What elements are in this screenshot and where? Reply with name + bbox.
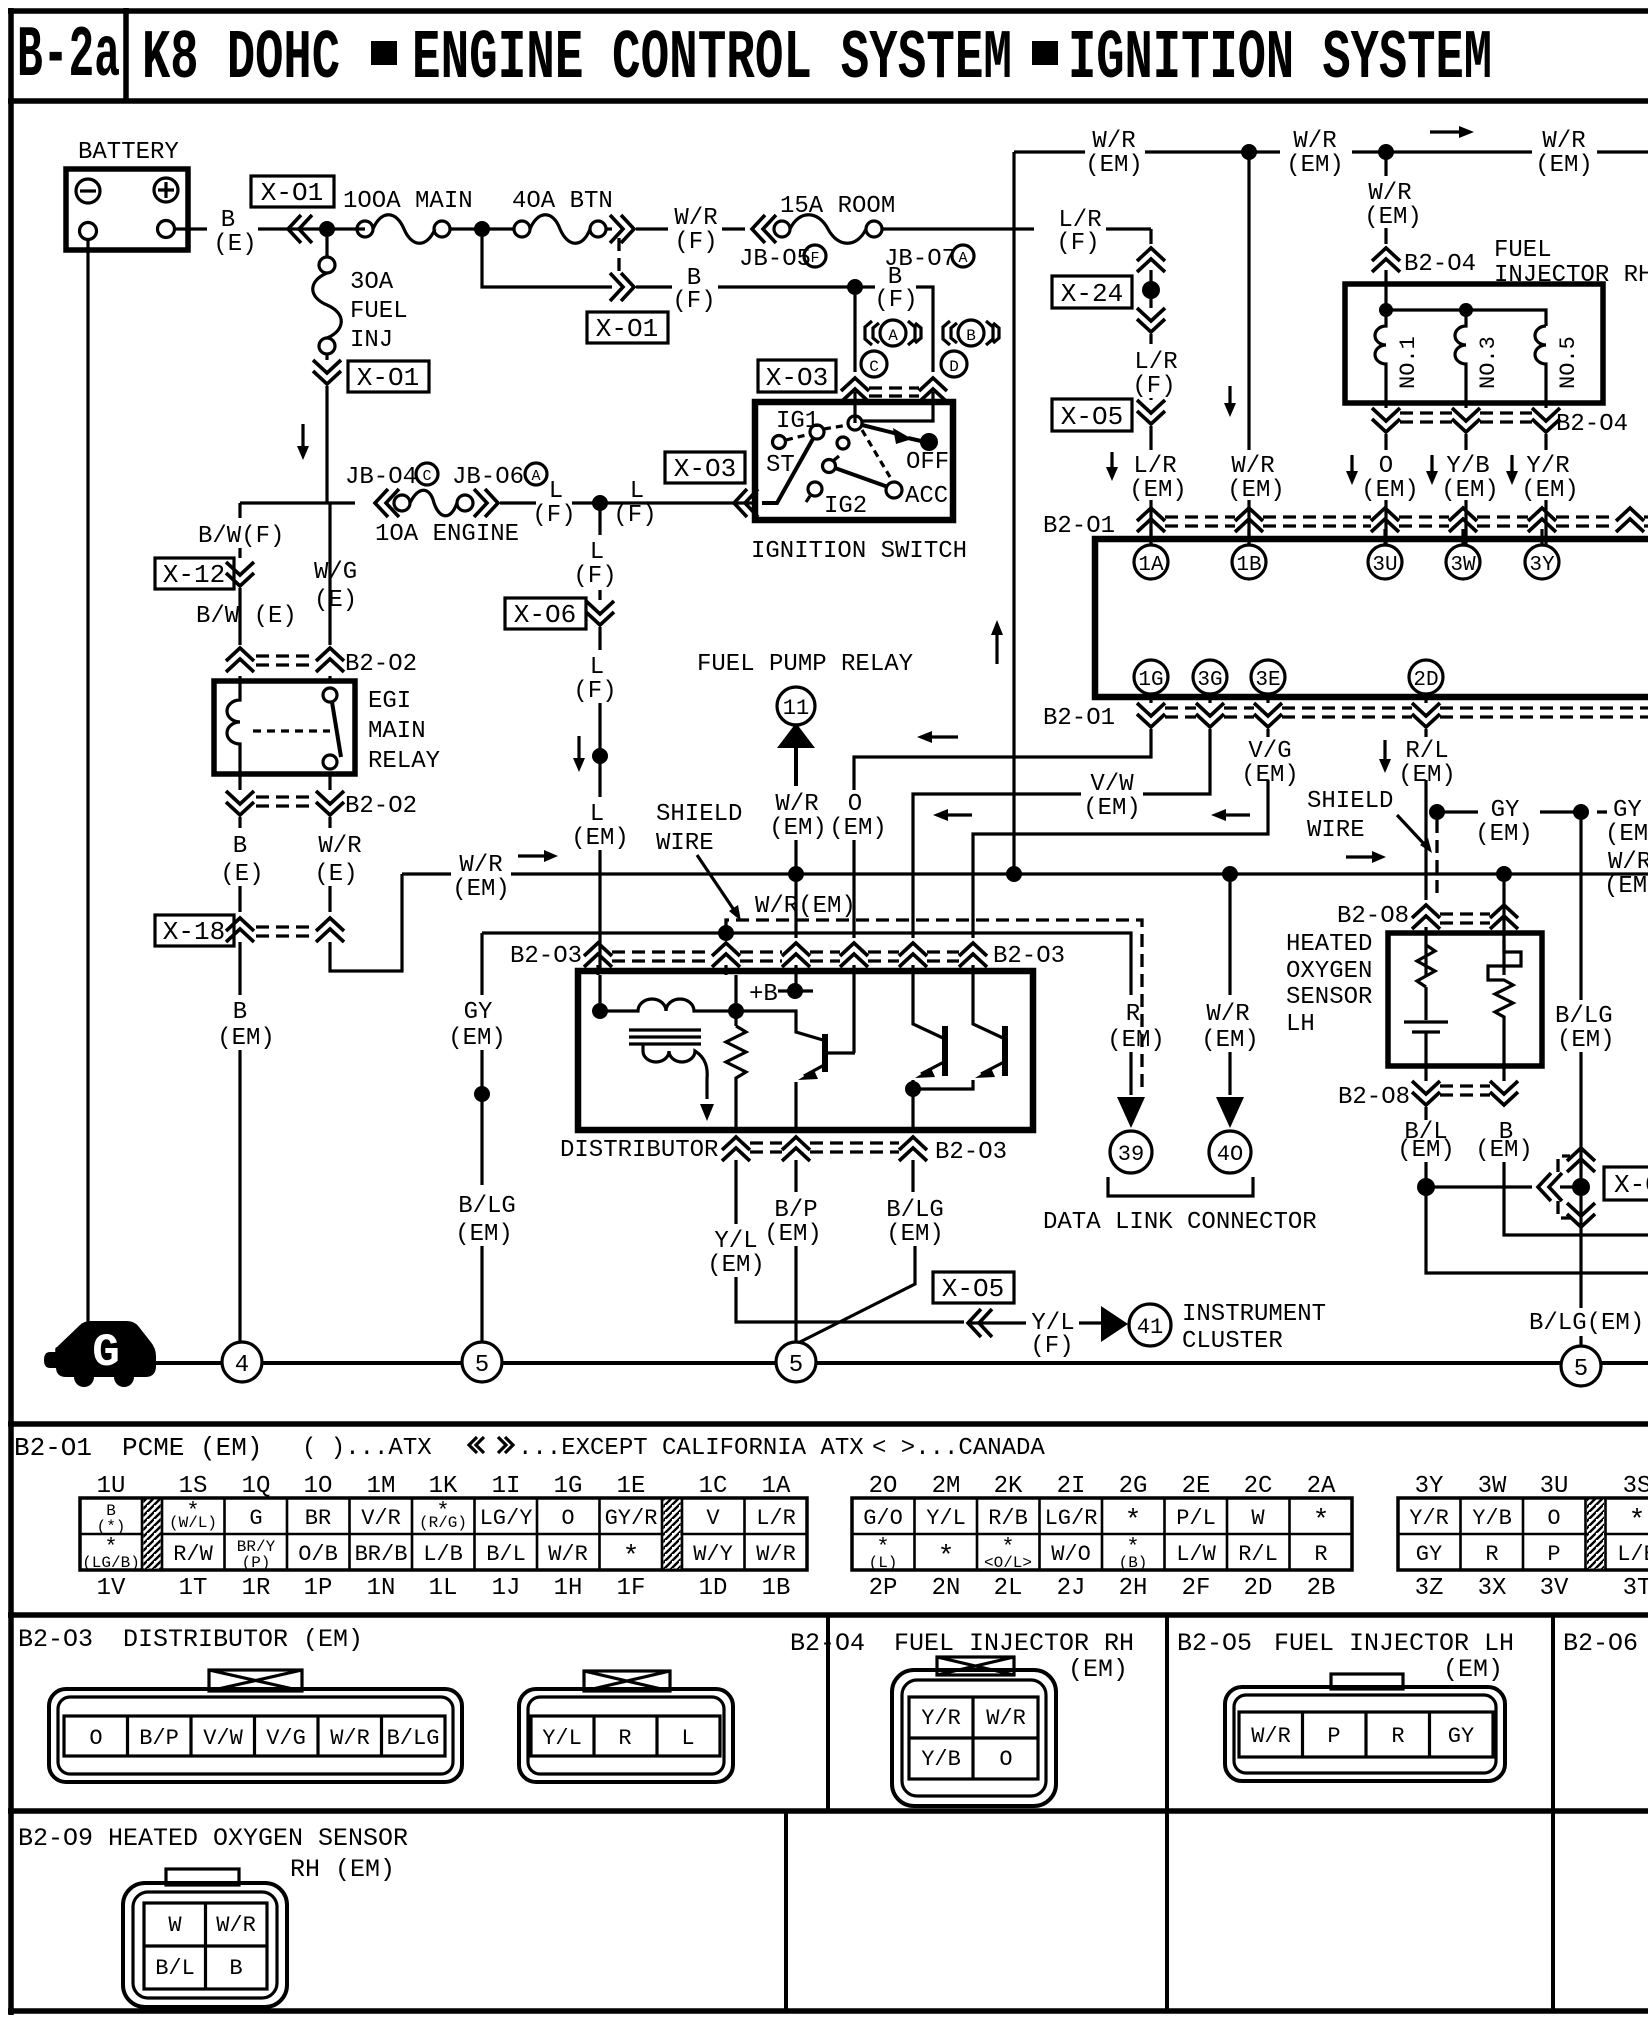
- svg-text:FUEL INJECTOR LH: FUEL INJECTOR LH: [1274, 1629, 1514, 1658]
- wire W/R(F): [636, 227, 745, 230]
- svg-text:ACC: ACC: [905, 483, 948, 510]
- wire B/L junction to X connector: [1426, 1185, 1581, 1188]
- svg-text:Y/B: Y/B: [1446, 453, 1489, 480]
- connector chevron up above dot: [1567, 1148, 1595, 1172]
- svg-text:1S: 1S: [179, 1473, 208, 1500]
- distributor connector 3pin body: [519, 1689, 733, 1782]
- except-california A close bracket: [908, 321, 921, 345]
- sensor cell battery symbol: [1404, 987, 1448, 1066]
- svg-text:3V: 3V: [1540, 1575, 1569, 1602]
- ACC contact: [886, 482, 902, 498]
- wire from B/W column: [240, 501, 355, 504]
- contact IG1: [810, 425, 824, 439]
- arrow triangle R: [1117, 1097, 1145, 1128]
- arrow right top: [1430, 130, 1468, 133]
- injector LH connector body: [1225, 1687, 1505, 1781]
- pin 2D: [1409, 660, 1443, 694]
- wire B(E) to fuses: [258, 227, 365, 230]
- svg-text:B/LG: B/LG: [1555, 1003, 1613, 1030]
- arrow down: [1110, 452, 1113, 476]
- svg-text:MAIN: MAIN: [368, 718, 426, 745]
- pin 1G: [1134, 660, 1168, 694]
- arrow down: [1350, 455, 1353, 480]
- svg-text:B2-O6: B2-O6: [1563, 1629, 1638, 1658]
- svg-text:1A: 1A: [762, 1473, 791, 1500]
- svg-text:L: L: [681, 1726, 694, 1751]
- svg-text:(EM): (EM): [1107, 1027, 1165, 1054]
- wire V/G to Q3: [973, 975, 1003, 1038]
- svg-text:R/L: R/L: [1405, 738, 1448, 765]
- battery plus terminal: [154, 178, 178, 202]
- svg-text:W/R(EM): W/R(EM): [755, 893, 856, 920]
- battery lower-right post: [158, 221, 175, 238]
- svg-text:*: *: [1125, 1506, 1142, 1537]
- svg-text:X-O3: X-O3: [766, 363, 828, 393]
- connector chevron down: [1137, 308, 1165, 332]
- svg-text:<O/L>: <O/L>: [984, 1554, 1032, 1572]
- group2 row1 cells: [863, 1506, 1329, 1537]
- distributor connector 6pin tab: [209, 1670, 302, 1691]
- svg-text:GY: GY: [464, 999, 493, 1026]
- svg-text:X-O: X-O: [1614, 1170, 1648, 1200]
- wire to PCME: [1149, 500, 1152, 545]
- svg-text:DISTRIBUTOR: DISTRIBUTOR: [560, 1137, 718, 1164]
- svg-text:X-O3: X-O3: [674, 454, 736, 484]
- svg-text:GY: GY: [1416, 1542, 1442, 1567]
- wire to ignition switch: [660, 501, 755, 504]
- injector LH pin row: [1239, 1712, 1493, 1757]
- riser from bus to top: [1012, 152, 1015, 874]
- data link bracket: [1108, 1177, 1253, 1196]
- svg-text:L: L: [590, 801, 604, 828]
- svg-text:B2-O2: B2-O2: [345, 651, 417, 678]
- connector X-06 chevron: [586, 601, 614, 625]
- wire: [598, 627, 601, 650]
- svg-text:P: P: [1547, 1542, 1560, 1567]
- svg-text:(F): (F): [573, 678, 616, 705]
- svg-text:DISTRIBUTOR: DISTRIBUTOR: [123, 1625, 288, 1654]
- svg-text:(EM): (EM): [1443, 1655, 1503, 1684]
- wire to junction: [500, 501, 536, 504]
- wires below box: [1386, 403, 1546, 408]
- divider B2-05/B2-06: [1551, 1614, 1555, 2011]
- svg-text:*: *: [938, 1542, 955, 1573]
- svg-text:(EM): (EM): [1364, 204, 1422, 231]
- circled D: [941, 351, 967, 377]
- pin 3E: [1251, 660, 1285, 694]
- triangle right: [1101, 1306, 1128, 1342]
- wire V/W to Q2: [913, 975, 943, 1038]
- svg-text:W/R: W/R: [775, 791, 818, 818]
- pin 3U: [1368, 545, 1402, 579]
- distributor connector 3pin pin row: [531, 1716, 720, 1756]
- svg-text:G: G: [92, 1327, 120, 1379]
- junction dot injector column: [1378, 144, 1394, 160]
- wire B/W(F) down: [325, 386, 328, 503]
- wire B/L down to junction: [1424, 1107, 1427, 1187]
- svg-text:JB-O4: JB-O4: [345, 464, 417, 491]
- svg-text:X-O5: X-O5: [1061, 402, 1123, 432]
- svg-text:O/B: O/B: [298, 1542, 338, 1567]
- dashed bracket marks: [1558, 1156, 1570, 1172]
- wire B(F) down and right: [482, 237, 612, 287]
- wire W/R(E) to bus riser: [330, 874, 402, 971]
- wire B down and right: [1504, 1162, 1648, 1235]
- wire 1A..3Y pins up to chevrons: [1151, 529, 1542, 545]
- EGI main relay box: [214, 681, 355, 774]
- svg-text:3U: 3U: [1540, 1473, 1569, 1500]
- wire: [328, 886, 331, 912]
- page left border: [8, 8, 14, 2015]
- svg-text:(EM): (EM): [1535, 152, 1593, 179]
- svg-text:FUEL: FUEL: [1494, 237, 1552, 264]
- svg-text:L/W: L/W: [1176, 1542, 1216, 1567]
- base feed from coil to Q1: [736, 1011, 823, 1040]
- connector X-18 chevrons: [226, 918, 254, 942]
- X-05 box: [933, 1272, 1014, 1303]
- svg-text:W/R: W/R: [986, 1706, 1026, 1731]
- svg-text:1B: 1B: [762, 1575, 791, 1602]
- B2-03 bottom dashed pair: [750, 1141, 899, 1144]
- wire 1G pin to chevron: [1151, 694, 1426, 703]
- svg-text:+B: +B: [749, 981, 778, 1008]
- svg-text:L: L: [590, 539, 604, 566]
- svg-text:BR: BR: [305, 1506, 331, 1531]
- svg-text:1B: 1B: [1236, 554, 1261, 577]
- B2-02 dashed pair: [256, 654, 314, 657]
- ST arm diagonal: [762, 437, 814, 503]
- svg-text:IG2: IG2: [824, 493, 867, 520]
- svg-text:1O: 1O: [304, 1473, 333, 1500]
- svg-text:OFF: OFF: [906, 449, 949, 476]
- svg-text:L/B: L/B: [423, 1542, 463, 1567]
- pin labels top group2: [869, 1473, 1336, 1500]
- wire L down: [598, 511, 601, 535]
- svg-text:2D: 2D: [1413, 669, 1438, 692]
- fuse 30A FUEL INJ: [319, 257, 335, 273]
- svg-text:B/LG: B/LG: [458, 1193, 516, 1220]
- wire B(F) to junction: [636, 285, 875, 288]
- battery box: [66, 169, 188, 250]
- page top border: [8, 8, 1648, 14]
- svg-text:1J: 1J: [492, 1575, 521, 1602]
- wire GY/R horizontal: [482, 933, 1131, 995]
- svg-text:W/R: W/R: [318, 833, 361, 860]
- svg-text:1K: 1K: [429, 1473, 458, 1500]
- circled A: [880, 320, 906, 346]
- ground circle 5 (B/LG): [462, 1342, 502, 1382]
- junction dot shield: [718, 925, 734, 941]
- svg-text:1P: 1P: [304, 1575, 333, 1602]
- svg-text:B/L: B/L: [486, 1542, 526, 1567]
- connector X-01 chevron right: [610, 215, 634, 243]
- svg-text:(F): (F): [674, 229, 717, 256]
- wire 15A output L/R: [882, 227, 1151, 230]
- svg-text:FUEL PUMP RELAY: FUEL PUMP RELAY: [697, 651, 913, 678]
- battery minus terminal: [76, 179, 100, 203]
- wire down from bus dot: [1247, 152, 1250, 545]
- svg-text:(EM): (EM): [448, 1025, 506, 1052]
- svg-text:B2-O3: B2-O3: [510, 943, 582, 970]
- svg-text:(EM): (EM): [303, 1625, 363, 1654]
- arrow left: [925, 735, 958, 738]
- ground circle 5 (B/P): [776, 1342, 816, 1382]
- oxygen sensor pin grid: [144, 1903, 267, 1989]
- wire W/R down from bus: [1228, 882, 1231, 995]
- connector X-05 chevron: [1137, 400, 1165, 424]
- group1 outer: [80, 1498, 807, 1570]
- X-03 box: [665, 452, 745, 483]
- svg-text:JB-O6: JB-O6: [452, 464, 524, 491]
- wire O to Q1 collector: [852, 975, 855, 1053]
- svg-text:1G: 1G: [554, 1473, 583, 1500]
- svg-text:X-O1: X-O1: [596, 314, 658, 344]
- svg-text:W: W: [168, 1913, 182, 1938]
- svg-text:LG/R: LG/R: [1045, 1506, 1098, 1531]
- wire B(F) right branch: [916, 287, 933, 372]
- injector internal bus: [1386, 310, 1546, 326]
- svg-text:(EM): (EM): [1201, 1027, 1259, 1054]
- svg-text:X-24: X-24: [1061, 279, 1123, 309]
- connector B2-03 top chevrons: [584, 943, 612, 967]
- svg-text:B: B: [966, 327, 976, 345]
- wire fuse to connector: [606, 227, 612, 230]
- battery lower-left post: [80, 223, 97, 240]
- bus junction dot at sensor heater: [1496, 866, 1512, 882]
- wire B/L down and right: [1426, 1187, 1648, 1273]
- svg-text:2O: 2O: [869, 1473, 898, 1500]
- svg-text:A: A: [958, 250, 967, 267]
- svg-text:V/W: V/W: [1090, 771, 1134, 798]
- svg-text:B/LG: B/LG: [387, 1726, 440, 1751]
- wire: [1149, 426, 1152, 450]
- contact B: [848, 416, 862, 430]
- svg-text:W/R: W/R: [548, 1542, 588, 1567]
- svg-text:LG/Y: LG/Y: [480, 1506, 533, 1531]
- pin labels top group1: [97, 1473, 791, 1500]
- B2-02 dashed pair lower: [256, 795, 314, 798]
- relay contact lower: [323, 755, 337, 769]
- svg-text:(EM): (EM): [829, 815, 887, 842]
- wires below relay: [240, 774, 330, 790]
- svg-text:(EM): (EM): [1475, 821, 1533, 848]
- junction dot: [847, 279, 863, 295]
- arrow down: [1383, 740, 1386, 768]
- svg-text:W/R: W/R: [216, 1913, 256, 1938]
- svg-text:(EM): (EM): [1085, 152, 1143, 179]
- double angle brackets: [469, 1437, 513, 1453]
- svg-text:2K: 2K: [994, 1473, 1023, 1500]
- svg-text:B2-O4: B2-O4: [1404, 251, 1476, 278]
- B2-04 dashed pair: [1400, 411, 1532, 414]
- distributor connector 3pin tab: [584, 1671, 670, 1691]
- svg-text:2D: 2D: [1244, 1575, 1273, 1602]
- svg-text:W/R: W/R: [1231, 453, 1274, 480]
- svg-text:IGNITION SYSTEM: IGNITION SYSTEM: [1068, 20, 1492, 99]
- X-03 box: [758, 360, 836, 392]
- bus junction dot at data-link W/R: [1222, 866, 1238, 882]
- svg-text:SHIELD: SHIELD: [1307, 788, 1393, 815]
- svg-text:BATTERY: BATTERY: [78, 139, 179, 166]
- wire B/LG below: [796, 1160, 915, 1344]
- svg-text:(E): (E): [314, 861, 357, 888]
- X-24 box: [1052, 276, 1132, 308]
- injector RH connector tab: [937, 1657, 1014, 1675]
- svg-text:W/R: W/R: [1368, 180, 1411, 207]
- IG2 arm: [823, 460, 836, 473]
- svg-text:C: C: [422, 468, 431, 485]
- coil primary: L wire to dot: [598, 975, 601, 1011]
- relay dashed link: [253, 729, 330, 732]
- wire into box: [1384, 270, 1387, 310]
- connector X-12 chevron: [226, 562, 254, 586]
- wire Y/L column through resistor: [734, 975, 737, 1026]
- circled 40: [1209, 1131, 1251, 1173]
- X-01 box: [348, 361, 429, 392]
- svg-text:W/R: W/R: [1542, 128, 1585, 155]
- svg-text:2M: 2M: [932, 1473, 961, 1500]
- ground circle 4: [222, 1342, 262, 1382]
- svg-text:NO.5: NO.5: [1556, 336, 1581, 389]
- except-california B bracket: [943, 321, 957, 345]
- fuse 40A BTN: [514, 221, 530, 237]
- svg-text:2N: 2N: [932, 1575, 961, 1602]
- divider right of B2-09: [784, 1810, 788, 2011]
- svg-text:K8 DOHC: K8 DOHC: [142, 20, 340, 99]
- svg-text:GY/R: GY/R: [605, 1506, 658, 1531]
- svg-text:(EM): (EM): [1397, 1137, 1455, 1164]
- svg-text:(LG/B): (LG/B): [82, 1554, 140, 1572]
- injector RH connector body: [892, 1670, 1056, 1806]
- pointer arrow: [1397, 815, 1425, 845]
- wire W/R(E): [328, 817, 331, 828]
- svg-text:O: O: [1547, 1506, 1560, 1531]
- svg-text:< >...CANADA: < >...CANADA: [872, 1435, 1045, 1462]
- wire V/W from 3G : down, left, down: [913, 729, 1210, 938]
- bus junction dot at main riser: [1006, 866, 1022, 882]
- arrow down: [577, 736, 580, 767]
- group3 row1 cells: [1409, 1506, 1645, 1537]
- svg-text:1G: 1G: [1138, 669, 1163, 692]
- svg-text:3W: 3W: [1450, 554, 1476, 577]
- junction dot coil/resistor: [728, 1003, 744, 1019]
- arrow up near PCME: [995, 625, 998, 664]
- svg-text:Y/L: Y/L: [714, 1228, 757, 1255]
- svg-text:B/P: B/P: [139, 1726, 179, 1751]
- wires into switch: [855, 392, 933, 423]
- svg-text:R: R: [1485, 1542, 1498, 1567]
- svg-text:W/R: W/R: [1293, 128, 1336, 155]
- svg-text:(EM): (EM): [1441, 477, 1499, 504]
- svg-text:1U: 1U: [97, 1473, 126, 1500]
- svg-text:O: O: [561, 1506, 574, 1531]
- svg-text:2L: 2L: [994, 1575, 1023, 1602]
- injector coil NO.3: [1455, 310, 1466, 403]
- circled B: [958, 320, 984, 346]
- svg-text:WIRE: WIRE: [656, 830, 714, 857]
- svg-text:L: L: [549, 478, 563, 505]
- wire: [1149, 398, 1152, 400]
- svg-text:1N: 1N: [367, 1575, 396, 1602]
- svg-text:2H: 2H: [1119, 1575, 1148, 1602]
- wire battery plus output: [174, 227, 207, 230]
- GY line with dots: [1429, 804, 1445, 820]
- svg-text:1T: 1T: [179, 1575, 208, 1602]
- svg-text:1H: 1H: [554, 1575, 583, 1602]
- svg-text:W/R: W/R: [756, 1542, 796, 1567]
- X-24 junction dot: [1142, 281, 1160, 299]
- svg-text:(EM): (EM): [217, 1025, 275, 1052]
- junction dot: [319, 221, 335, 237]
- svg-text:F: F: [810, 250, 819, 267]
- distributor connector 6pin pin row: [64, 1716, 445, 1756]
- svg-text:GY: GY: [1448, 1724, 1474, 1749]
- svg-text:1A: 1A: [1138, 554, 1164, 577]
- svg-text:V/G: V/G: [266, 1726, 306, 1751]
- wire R down: [1129, 1052, 1132, 1095]
- connector B2-01 top chevrons: [1137, 508, 1165, 532]
- connector B2-04 chevrons lower: [1372, 408, 1400, 432]
- svg-text:B2-O2: B2-O2: [345, 793, 417, 820]
- junction dot: [592, 495, 608, 511]
- connector X-03 chevron: [734, 489, 758, 517]
- wire B (EM) down: [238, 942, 241, 995]
- svg-text:5: 5: [1574, 1356, 1588, 1383]
- svg-text:W/R: W/R: [1092, 128, 1135, 155]
- wire Y/L below: [736, 1160, 964, 1322]
- svg-text:O: O: [89, 1726, 102, 1751]
- svg-text:G/O: G/O: [863, 1506, 903, 1531]
- distributor box: [578, 971, 1033, 1130]
- group1 row1 cells: [106, 1502, 796, 1532]
- svg-text:(E): (E): [314, 587, 357, 614]
- svg-text:3U: 3U: [1372, 554, 1397, 577]
- header bottom rule: [8, 98, 1648, 104]
- svg-text:39: 39: [1118, 1142, 1144, 1167]
- svg-text:(EM): (EM): [764, 1221, 822, 1248]
- wire down to distributor: [598, 850, 601, 971]
- wire B/P below: [794, 1160, 797, 1342]
- X-01 box: [587, 312, 668, 343]
- wire junction: [572, 501, 660, 504]
- svg-text:(EM): (EM): [571, 825, 629, 852]
- connector B2-03 bottom chevrons: [722, 1137, 750, 1161]
- svg-text:B2-O1: B2-O1: [14, 1433, 92, 1463]
- svg-text:(F): (F): [1030, 1333, 1073, 1360]
- arrow left: [1219, 813, 1250, 816]
- pin labels bottom group2: [869, 1575, 1336, 1602]
- wire R/L from 2D : down to sensor: [1424, 729, 1427, 900]
- svg-text:1V: 1V: [97, 1575, 126, 1602]
- Q2 emitter down to junction: [911, 1080, 914, 1130]
- svg-text:1C: 1C: [699, 1473, 728, 1500]
- svg-text:W/Y: W/Y: [693, 1542, 733, 1567]
- transistor Q2: [942, 1026, 948, 1076]
- svg-text:(EM): (EM): [1286, 152, 1344, 179]
- wire: [1228, 1052, 1231, 1095]
- svg-text:B: B: [233, 999, 247, 1026]
- svg-text:B/LG(EM): B/LG(EM): [1529, 1310, 1644, 1337]
- svg-text:JB-O5: JB-O5: [739, 246, 811, 273]
- svg-text:3G: 3G: [1197, 669, 1222, 692]
- circled 11: [777, 687, 815, 725]
- svg-text:X-O1: X-O1: [261, 178, 323, 208]
- svg-text:G: G: [249, 1506, 262, 1531]
- svg-text:(EM): (EM): [1083, 795, 1141, 822]
- svg-text:W/R: W/R: [1251, 1724, 1291, 1749]
- svg-text:B2-O4: B2-O4: [1556, 411, 1628, 438]
- svg-text:(EM): (EM): [1361, 477, 1419, 504]
